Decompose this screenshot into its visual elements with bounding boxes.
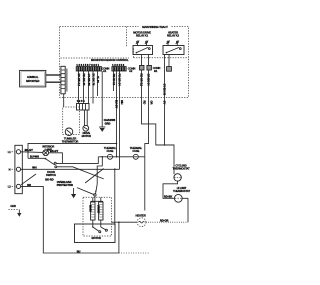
sensor motor circle [65, 128, 73, 136]
svg-text:GY-WH 56: GY-WH 56 [87, 74, 91, 87]
svg-text:RD: RD [142, 101, 146, 105]
relay K1 body [133, 46, 153, 55]
crossing diagonal wire [85, 169, 104, 184]
relay K2 (heater relay) label [167, 31, 180, 38]
hi-limit riser [182, 198, 188, 222]
svg-text:BK-RD: BK-RD [45, 177, 53, 181]
terminal L2 [8, 184, 21, 188]
wire door switch NC contact diagonal [57, 167, 104, 179]
wire label BU-WH [30, 155, 39, 159]
svg-text:MICROPROCESSOR CONTROL: MICROPROCESSOR CONTROL [91, 58, 129, 62]
svg-text:WH: WH [32, 166, 36, 170]
relay K2 body [163, 46, 184, 55]
wire label BU L2 [27, 183, 31, 187]
wire from relay K1 pin right to thermal fuses [145, 70, 149, 157]
heater feed wire from motor area [111, 221, 137, 253]
svg-text:ADMIRAL: ADMIRAL [27, 75, 39, 79]
relay K2 output wire to pin [168, 55, 170, 67]
board edge connector (left) [61, 66, 67, 94]
serial plate box [20, 70, 46, 87]
svg-text:MAIN WIRING TRACT: MAIN WIRING TRACT [142, 25, 168, 29]
door switch [45, 158, 57, 168]
svg-text:PROTECTOR: PROTECTOR [57, 183, 73, 187]
outer dashed enclosure (console/cabinet boundary) [60, 27, 189, 98]
terminal N [9, 167, 21, 171]
heater to hi-limit dotted wire [146, 221, 188, 223]
relay K1 (motor drive relay) label [133, 31, 151, 38]
fuse chain wire [98, 156, 145, 158]
relay K1 output wires to pins [142, 55, 149, 66]
svg-text:YL 90: YL 90 [96, 76, 100, 83]
svg-text:BK-WH 12: BK-WH 12 [77, 74, 81, 87]
svg-text:GRD: GRD [105, 121, 111, 125]
winding to motor contacts [92, 220, 107, 233]
chassis ground label [104, 118, 116, 125]
power cord ground [9, 204, 22, 217]
svg-text:THERMOSTAT: THERMOSTAT [173, 189, 191, 193]
wire label BK-GY [25, 148, 34, 152]
door switch label [45, 170, 56, 181]
svg-text:BU-BK 78: BU-BK 78 [92, 74, 96, 86]
connector label CONN B1 [153, 66, 161, 73]
svg-text:BU-GY: BU-GY [115, 100, 119, 109]
wire label WH [32, 166, 36, 170]
heater element [137, 218, 146, 227]
microprocessor control partition (dashed) [61, 27, 189, 58]
start winding [99, 202, 103, 220]
wire group2 pin c (neutral drop) [119, 71, 121, 169]
fuse chain drop to centrifugal switch [97, 156, 103, 184]
thermal fuse 1 label [104, 146, 117, 153]
svg-text:THERMISTOR: THERMISTOR [62, 139, 79, 143]
relay2 junction horizontal [156, 144, 174, 146]
wire feed to door switch common [28, 157, 45, 159]
overload protector label [57, 180, 73, 187]
wire group2 pin a [113, 71, 115, 91]
harness connector block [77, 104, 90, 111]
pin numbers group 2 [112, 63, 125, 67]
svg-text:BK-GY: BK-GY [25, 148, 34, 152]
svg-text:MOTOR: MOTOR [92, 236, 102, 240]
hi-limit left wire label [164, 194, 172, 198]
svg-text:N: N [9, 167, 11, 171]
terminal block [15, 145, 22, 193]
wire from fuse chain down to heater [144, 157, 146, 211]
cycling thermostat [174, 174, 181, 181]
interior lamp label [42, 145, 54, 152]
wire N run [21, 168, 120, 170]
wire color labels under group 2 [112, 74, 121, 87]
relay K2 pin [167, 67, 172, 72]
svg-text:MAIN: MAIN [88, 205, 92, 212]
svg-text:BU-WH: BU-WH [30, 155, 39, 159]
wire label BK-GY 2 [50, 149, 59, 153]
svg-text:RD-OR: RD-OR [160, 218, 169, 222]
sensor assembly dashed box [63, 107, 80, 134]
wires serial plate to edge connector [46, 75, 61, 82]
hi-limit thermostat [174, 194, 182, 202]
svg-text:RELAY K2: RELAY K2 [167, 34, 180, 38]
heater label [136, 214, 146, 218]
svg-text:START: START [97, 205, 101, 214]
pin numbers group 1 [76, 63, 99, 67]
buzzer [83, 125, 89, 131]
wire label RD-OR [160, 218, 169, 222]
wire lamp to door switch drop [49, 153, 63, 164]
relay K1 coil wires [138, 43, 147, 46]
cycling to hi-limit jog [163, 181, 178, 198]
wire color labels for relay pins [140, 74, 167, 105]
svg-text:RELAY K1: RELAY K1 [136, 34, 149, 38]
svg-text:GRD: GRD [10, 204, 16, 208]
connector pin strip group 2 [112, 67, 126, 71]
interior lamp [43, 150, 49, 156]
junction N to motor drop [114, 168, 116, 225]
junction L1 feed [27, 151, 29, 153]
microprocessor control label [91, 58, 129, 62]
svg-text:FUSE: FUSE [133, 149, 140, 153]
centrifugal switch [77, 184, 97, 202]
wire door switch NO contact right [56, 157, 98, 164]
svg-text:HEATER: HEATER [136, 214, 146, 218]
winding labels [88, 205, 100, 214]
wire from edge connector down to sensor box [63, 94, 65, 107]
wire L2 run [21, 186, 119, 253]
svg-text:1 2 3 4 5 6 7 8 9 0 1: 1 2 3 4 5 6 7 8 9 0 1 [76, 63, 99, 67]
terminal L1 [8, 150, 21, 154]
labels below partition line for group 2 wires [115, 100, 124, 109]
motor winding dashed box [83, 197, 111, 236]
svg-text:WH: WH [120, 100, 124, 104]
connector pin strip group 3 [140, 65, 152, 70]
hi-limit thermostat label [173, 186, 191, 193]
motor box [75, 224, 116, 243]
sensor label [62, 137, 79, 144]
relay K2 upper contacts [166, 41, 179, 44]
chassis ground wire [101, 71, 103, 127]
thermal fuse 2 label [130, 146, 143, 153]
svg-text:RD-BK 34: RD-BK 34 [82, 74, 86, 86]
thermal fuse 1 [108, 154, 113, 159]
cabinet label on top edge [139, 24, 172, 29]
svg-text:BK-GY: BK-GY [50, 149, 59, 153]
buzzer label [82, 131, 92, 138]
connector label CONN A1 [102, 66, 110, 73]
relay K1 upper contacts [136, 41, 148, 44]
svg-text:THERMOSTAT: THERMOSTAT [172, 167, 190, 171]
wire label BU bottom [77, 249, 81, 253]
svg-text:1 2 3 4 5 6: 1 2 3 4 5 6 [112, 63, 125, 67]
overload ground arrow [71, 188, 76, 198]
connector pin strip group 1 [76, 67, 101, 71]
main winding [91, 202, 95, 220]
bottom dotted continuation [119, 252, 149, 254]
wires from group 1 pins to connector [77, 71, 98, 104]
svg-text:FUSE: FUSE [107, 149, 114, 153]
svg-text:SWITCH: SWITCH [46, 173, 56, 177]
diagonal from L2 to door switch [21, 174, 36, 185]
wire group2 pin b (to lamp feed) [28, 71, 117, 158]
thermal fuse 2 [133, 154, 138, 159]
wire from relay K1 pin left down and jog right [142, 70, 175, 174]
svg-text:IMPORTED: IMPORTED [26, 79, 39, 83]
wire color labels under group 1 [77, 74, 100, 87]
svg-text:OR: OR [149, 101, 153, 105]
svg-text:MOTOR: MOTOR [82, 134, 92, 138]
svg-text:RD-BK: RD-BK [164, 194, 172, 198]
svg-text:BU: BU [77, 249, 81, 253]
relay K2 coil wires [168, 43, 177, 46]
svg-text:RD: RD [27, 183, 31, 187]
connector label CONN A2 [128, 66, 136, 73]
svg-text:TN-RD 12: TN-RD 12 [112, 74, 116, 86]
winding feed wires [91, 197, 103, 202]
chassis ground symbol [99, 127, 105, 132]
wire L1 to lamp [21, 151, 43, 154]
cycling thermostat label [172, 164, 190, 171]
wires from harness connector to buzzer [85, 110, 88, 126]
wire from relay K2 down to cycling tstat junction [164, 55, 166, 145]
